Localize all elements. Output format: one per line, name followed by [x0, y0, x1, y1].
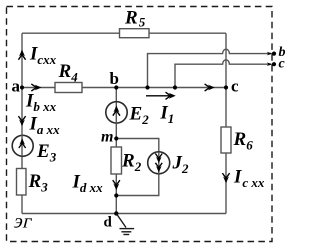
svg-text:I1: I1: [159, 103, 174, 127]
svg-text:R5: R5: [124, 8, 146, 30]
svg-text:R3: R3: [28, 171, 49, 195]
svg-text:Icxx: Icxx: [29, 44, 57, 67]
svg-text:E2: E2: [129, 104, 150, 128]
svg-text:Ic xx: Ic xx: [233, 166, 265, 190]
svg-text:E3: E3: [36, 141, 57, 165]
svg-text:J2: J2: [172, 152, 190, 176]
svg-text:R6: R6: [233, 129, 254, 153]
svg-text:d: d: [104, 215, 113, 231]
svg-text:R2: R2: [121, 150, 142, 174]
svg-text:a: a: [12, 77, 21, 96]
svg-text:m: m: [101, 129, 113, 146]
svg-text:c: c: [279, 57, 286, 72]
svg-text:c: c: [231, 77, 239, 96]
svg-text:R4: R4: [58, 61, 79, 85]
svg-text:Ia xx: Ia xx: [29, 114, 61, 138]
svg-text:Ib xx: Ib xx: [25, 90, 57, 114]
svg-text:эг: эг: [12, 211, 35, 233]
svg-text:Id xx: Id xx: [72, 171, 104, 195]
svg-text:b: b: [110, 69, 119, 88]
